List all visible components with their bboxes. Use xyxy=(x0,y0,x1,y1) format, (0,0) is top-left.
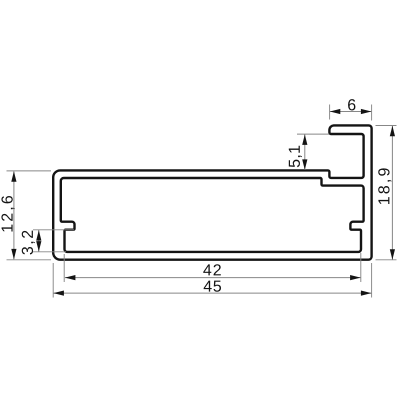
dimension text 3,2 xyxy=(22,231,35,255)
dimension text 18,9 xyxy=(378,168,391,204)
extension line 42 left xyxy=(63,254,65,282)
arrowhead 5,1 up xyxy=(302,134,307,145)
dimension line 5,1 xyxy=(304,135,306,170)
extension line 42 right xyxy=(360,253,362,282)
dimension text 12,6 xyxy=(1,196,14,232)
arrowhead 12,6 up xyxy=(11,171,16,182)
arrowhead 6 right xyxy=(361,109,372,114)
profile outer contour xyxy=(53,125,371,259)
dimension line 18,9 xyxy=(391,126,393,260)
extension line 12,6 top xyxy=(7,170,52,172)
extension line 45 left xyxy=(52,263,54,298)
arrowhead 45 left xyxy=(53,291,64,296)
arrowhead 42 right xyxy=(350,275,361,280)
extension line 12,6 bottom xyxy=(7,259,52,261)
extension line 6 left xyxy=(329,105,331,120)
dimension text 42 xyxy=(203,264,221,275)
arrowhead 42 left xyxy=(65,275,76,280)
dimension line 3,2 xyxy=(38,230,40,252)
arrowhead 5,1 down xyxy=(302,159,307,170)
dimension line 12,6 xyxy=(13,172,15,260)
dimension line 6 xyxy=(330,111,372,113)
dimension line 42 xyxy=(65,277,361,279)
arrowhead 45 right xyxy=(361,291,372,296)
dimension text 6 xyxy=(348,99,355,110)
dimension text 5,1 xyxy=(289,146,302,167)
profile inner cavity contour xyxy=(61,178,364,252)
arrowhead 12,6 down xyxy=(11,249,16,260)
extension line 6 right xyxy=(371,105,373,121)
arrowhead 18,9 down xyxy=(390,249,395,260)
extension line 18,9 top xyxy=(376,125,397,127)
dimension line 45 xyxy=(53,292,371,294)
extension line 18,9 bottom xyxy=(376,259,397,261)
extension line 3,2 bottom xyxy=(33,251,66,253)
arrowhead 6 left xyxy=(330,109,341,114)
dimension text 45 xyxy=(204,281,221,292)
arrowhead 18,9 up xyxy=(390,126,395,137)
extension line 45 right xyxy=(371,263,373,298)
arrowhead 3,2 down xyxy=(36,241,41,252)
arrowhead 3,2 up xyxy=(36,230,41,241)
extension line 5,1 top xyxy=(297,133,329,135)
extension line 3,2 top xyxy=(33,229,74,231)
